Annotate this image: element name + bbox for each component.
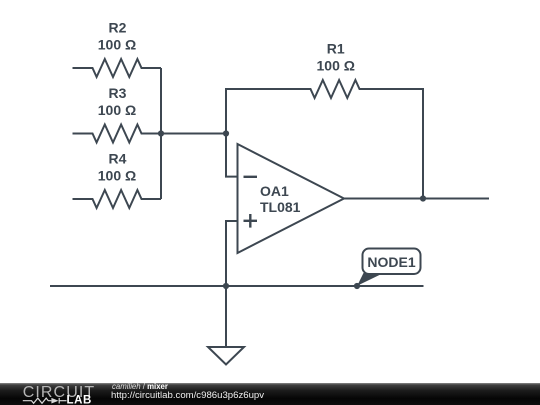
svg-text:LAB: LAB	[67, 395, 92, 405]
svg-text:100 Ω: 100 Ω	[317, 58, 355, 74]
svg-text:R2: R2	[109, 20, 127, 36]
svg-text:TL081: TL081	[260, 199, 301, 215]
svg-text:R1: R1	[327, 41, 345, 57]
svg-text:100 Ω: 100 Ω	[98, 168, 136, 184]
svg-text:R4: R4	[109, 151, 127, 167]
svg-text:R3: R3	[109, 85, 127, 101]
svg-text:100 Ω: 100 Ω	[98, 102, 136, 118]
svg-text:OA1: OA1	[260, 183, 289, 199]
svg-text:100 Ω: 100 Ω	[98, 37, 136, 53]
svg-text:NODE1: NODE1	[367, 254, 415, 270]
